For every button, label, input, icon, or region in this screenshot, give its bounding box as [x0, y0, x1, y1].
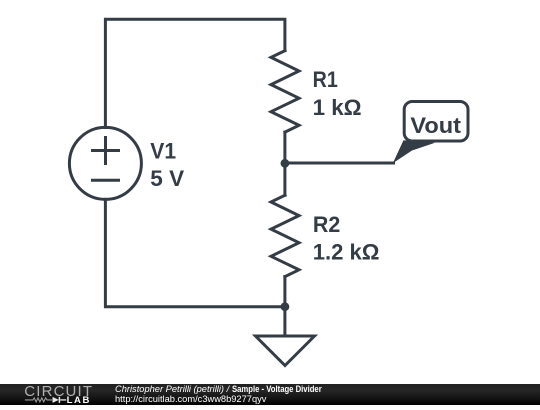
svg-text:V1: V1 — [150, 139, 176, 164]
footer credit text — [114, 383, 116, 385]
wire R2 bottom to ground node — [283, 277, 286, 307]
wire node A to Vout tail — [285, 162, 394, 165]
resistor R1 — [271, 51, 299, 133]
wire node A to R2 top — [283, 163, 286, 195]
ground node junction dot — [281, 302, 290, 311]
net flag Vout tail — [393, 140, 435, 163]
ground — [256, 307, 315, 366]
svg-text:LAB: LAB — [67, 395, 91, 405]
svg-text:1 kΩ: 1 kΩ — [313, 95, 362, 120]
node A junction dot — [281, 159, 290, 168]
wire bottom (V1 minus to ground node) — [105, 199, 285, 306]
svg-text:Vout: Vout — [410, 113, 461, 138]
voltage source V1 — [69, 127, 141, 199]
svg-text:1.2 kΩ: 1.2 kΩ — [313, 240, 380, 265]
CircuitLab logo — [0, 384, 100, 405]
net flag Vout box — [404, 102, 468, 142]
footer bar — [0, 384, 540, 405]
svg-text:R1: R1 — [313, 67, 338, 92]
wire top (V1 plus to R1 top) — [105, 19, 285, 127]
svg-text:5 V: 5 V — [150, 166, 184, 191]
svg-text:R2: R2 — [313, 212, 340, 237]
wire R1 bottom to node A — [283, 132, 286, 163]
resistor R2 — [271, 195, 299, 276]
